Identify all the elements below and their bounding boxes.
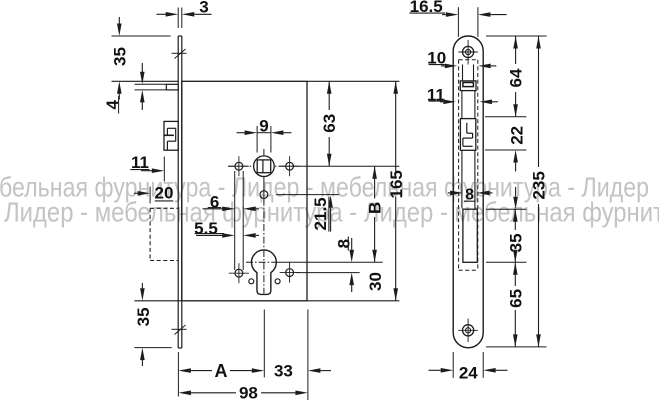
svg-text:20: 20 [155,184,174,203]
svg-text:A: A [215,361,228,381]
svg-text:35: 35 [134,307,153,326]
svg-text:35: 35 [110,47,129,66]
svg-text:33: 33 [274,361,293,380]
svg-text:B: B [366,202,385,214]
svg-text:24: 24 [459,364,478,383]
svg-text:35: 35 [506,233,525,252]
svg-text:63: 63 [320,114,339,133]
svg-text:9: 9 [259,117,268,136]
svg-text:235: 235 [530,171,549,199]
svg-text:8: 8 [334,239,353,248]
svg-text:30: 30 [366,272,385,291]
svg-text:22: 22 [507,126,526,145]
svg-text:165: 165 [387,170,406,198]
svg-text:64: 64 [507,68,526,87]
svg-text:65: 65 [506,289,525,308]
svg-text:21.5: 21.5 [311,197,330,230]
svg-text:98: 98 [239,383,258,400]
svg-text:3: 3 [199,0,208,17]
